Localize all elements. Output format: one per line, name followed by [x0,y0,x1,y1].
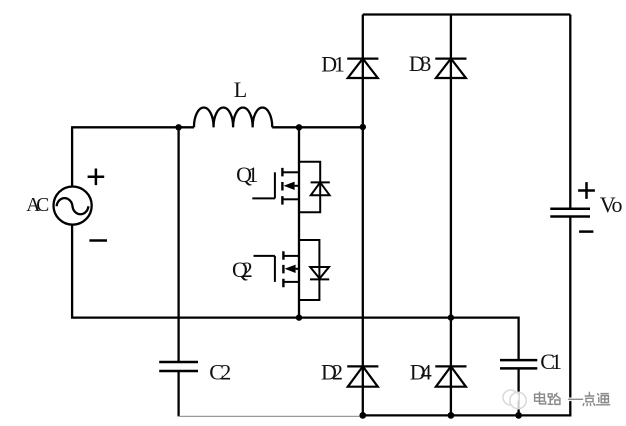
svg-text:o: o [612,192,623,217]
svg-text:2: 2 [332,360,343,385]
svg-text:1: 1 [334,52,345,77]
svg-text:2: 2 [220,360,231,385]
svg-text:3: 3 [420,51,431,76]
svg-text:1: 1 [551,349,562,374]
svg-text:C: C [36,195,49,216]
svg-text:1: 1 [247,162,258,187]
svg-text:4: 4 [421,360,432,385]
svg-text:2: 2 [242,257,253,282]
svg-text:L: L [234,77,247,102]
